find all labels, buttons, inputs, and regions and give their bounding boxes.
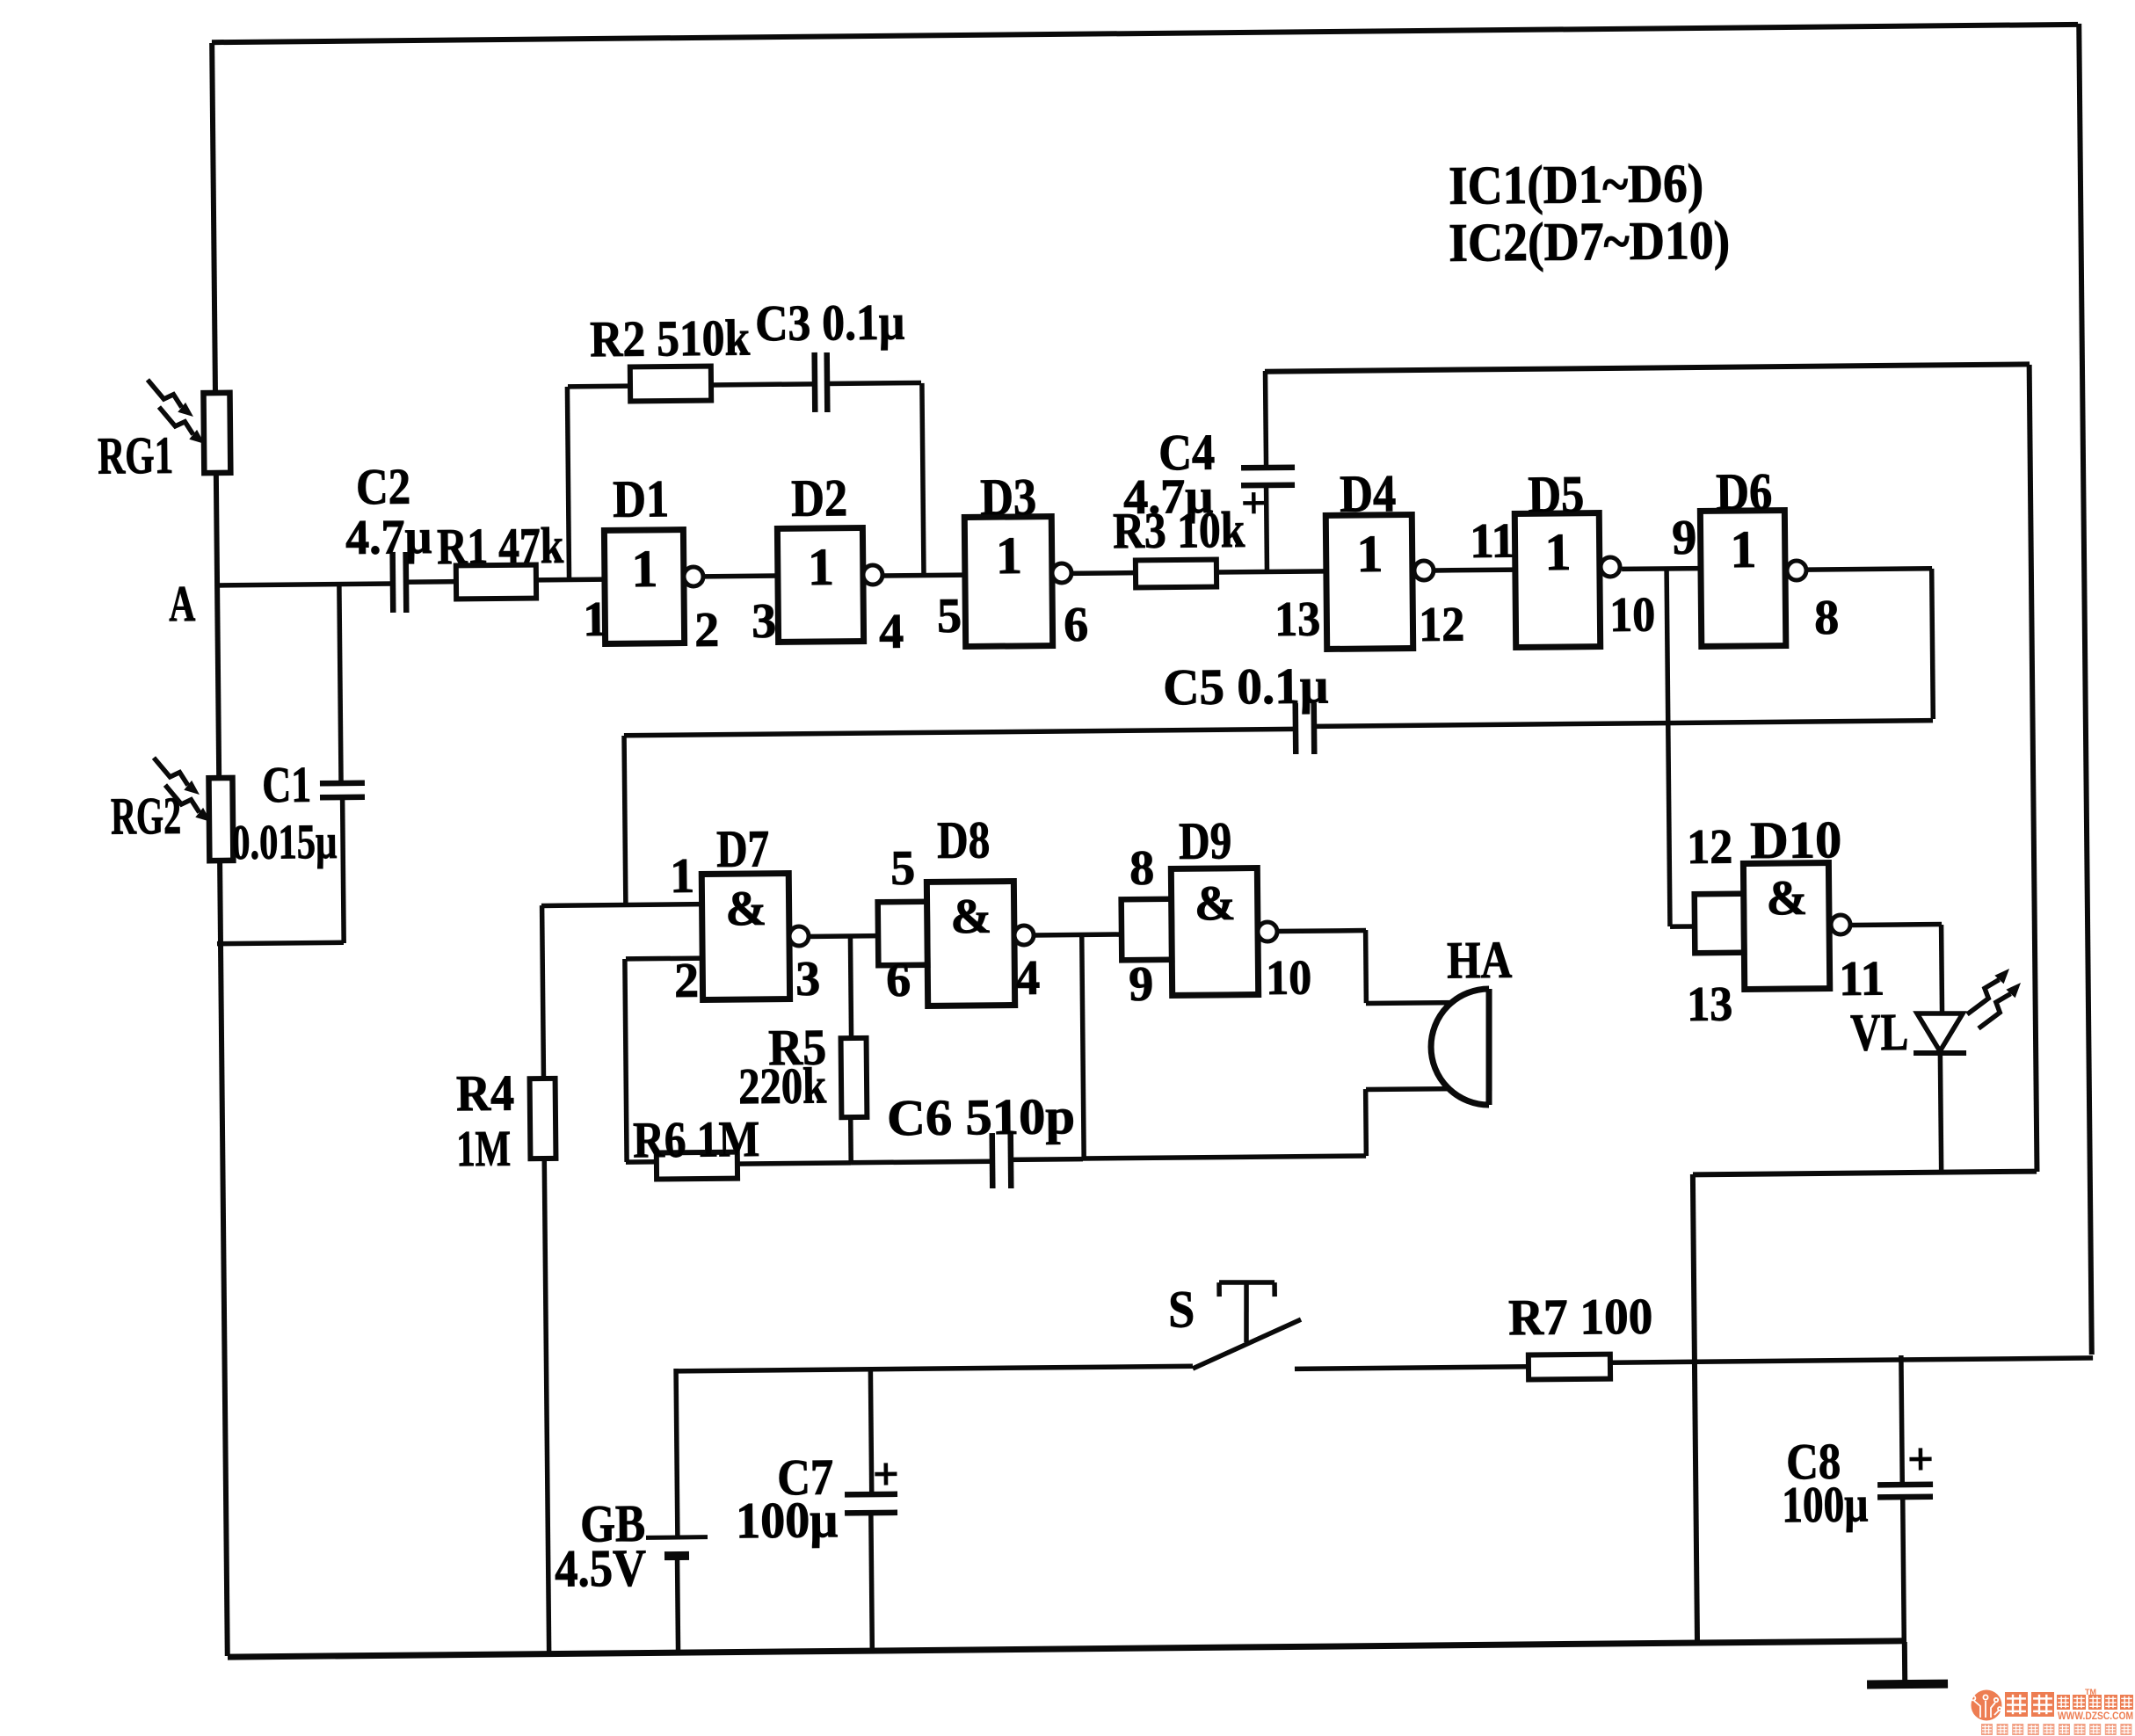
wire C2 to R1 bbox=[405, 579, 456, 585]
svg-text:D10: D10 bbox=[1750, 810, 1842, 869]
svg-text:8: 8 bbox=[1129, 841, 1155, 896]
wire D8 output to D9 pin 8 bbox=[1034, 932, 1122, 937]
svg-text:C3 0.1μ: C3 0.1μ bbox=[755, 294, 905, 352]
svg-text:+: + bbox=[873, 1449, 899, 1500]
wire D6 output down to C5 bbox=[1932, 569, 1934, 719]
svg-text:R4: R4 bbox=[456, 1064, 515, 1122]
inverter gate D3 bbox=[964, 516, 1072, 646]
wire R4 upper lead bbox=[542, 905, 544, 1079]
wire C5 line right bbox=[1314, 721, 1933, 727]
wire R1 to D1 input pin 1 bbox=[536, 577, 605, 582]
wire C5 line left bbox=[624, 729, 1296, 735]
wire C1 return to left border bbox=[217, 942, 344, 943]
svg-text:5: 5 bbox=[937, 589, 962, 643]
wire feedback down to bottom rail bbox=[1693, 1174, 1697, 1645]
svg-text:D8: D8 bbox=[937, 810, 991, 869]
svg-text:C5 0.1μ: C5 0.1μ bbox=[1163, 657, 1329, 715]
svg-text:&: & bbox=[1766, 871, 1807, 926]
wire D3 output to R3 bbox=[1071, 570, 1136, 576]
wire R3 to D4 pin 13 bbox=[1216, 571, 1326, 572]
svg-text:1: 1 bbox=[1356, 525, 1383, 583]
svg-text:C6 510p: C6 510p bbox=[887, 1087, 1076, 1146]
resistor R3 10k bbox=[1136, 560, 1216, 588]
svg-text:10: 10 bbox=[1266, 951, 1312, 1006]
wire R7 to right border bbox=[1610, 1358, 2093, 1362]
wire D5 output to D6 pin 9 bbox=[1622, 566, 1701, 571]
wire C6 right lead bbox=[1011, 1157, 1083, 1162]
svg-text:10: 10 bbox=[1609, 587, 1656, 642]
capacitor C2 4.7u bbox=[393, 552, 407, 613]
photoresistor RG1 bbox=[148, 379, 230, 474]
inverter gate D6 bbox=[1700, 510, 1806, 646]
svg-text:13: 13 bbox=[1274, 592, 1321, 647]
capacitor C3 0.1u bbox=[815, 352, 828, 412]
svg-text:RG2: RG2 bbox=[111, 787, 182, 846]
photoresistor RG2 bbox=[154, 757, 233, 861]
watermark slogan row bbox=[1981, 1724, 2131, 1735]
resistor R7 100 bbox=[1529, 1355, 1610, 1380]
wire node A to C2 bbox=[217, 584, 393, 585]
resistor R6 1M bbox=[657, 1152, 737, 1180]
wire C1 lower lead bbox=[343, 799, 345, 943]
capacitor C1 0.015u bbox=[320, 783, 365, 797]
wire into D10 pin 12 bbox=[1670, 924, 1695, 929]
svg-text:0.015μ: 0.015μ bbox=[231, 815, 338, 870]
svg-text:1: 1 bbox=[631, 540, 658, 598]
svg-text:11: 11 bbox=[1839, 951, 1885, 1006]
svg-text:4: 4 bbox=[1015, 951, 1041, 1006]
svg-text:VL: VL bbox=[1850, 1003, 1909, 1062]
wire ground stem bbox=[1902, 1642, 1907, 1682]
wire D7 pin 1 bbox=[541, 904, 702, 906]
capacitor C8 100u electrolytic bbox=[1877, 1485, 1933, 1498]
wire D6 output pin 8 bbox=[1807, 569, 1932, 570]
svg-text:4.7μ: 4.7μ bbox=[345, 510, 432, 565]
svg-text:WWW.DZSC.COM: WWW.DZSC.COM bbox=[2058, 1710, 2133, 1722]
svg-text:C2: C2 bbox=[356, 458, 411, 516]
svg-text:11: 11 bbox=[1470, 513, 1516, 568]
wire R6 to R5 junction bbox=[737, 1163, 851, 1164]
wire C1 upper lead bbox=[339, 584, 341, 783]
svg-text:2: 2 bbox=[674, 954, 700, 1008]
watermark brand text bbox=[2005, 1692, 2054, 1717]
svg-text:IC1(D1~D6): IC1(D1~D6) bbox=[1449, 154, 1704, 216]
wire D7 pin 2 bbox=[626, 955, 702, 961]
svg-text:9: 9 bbox=[1672, 511, 1697, 565]
NAND gate D10 bbox=[1694, 862, 1850, 990]
wire C3 feedback down to D2 output bbox=[922, 383, 924, 575]
switch S pushbutton bbox=[1192, 1282, 1302, 1369]
wire R4 lower lead bbox=[544, 1159, 548, 1653]
svg-text:13: 13 bbox=[1687, 977, 1733, 1032]
svg-text:+: + bbox=[1241, 478, 1267, 527]
wire switch S to R7 bbox=[1295, 1367, 1529, 1369]
capacitor C4 4.7u electrolytic bbox=[1241, 468, 1295, 486]
wire R5 junction to C6 bbox=[851, 1161, 992, 1163]
svg-text:C1: C1 bbox=[262, 756, 312, 814]
capacitor C7 100u electrolytic bbox=[845, 1494, 897, 1514]
svg-text:1: 1 bbox=[1544, 523, 1572, 581]
svg-text:S: S bbox=[1168, 1280, 1195, 1338]
wire D9 output pin 10 bbox=[1275, 928, 1366, 933]
wire D10 output pin 11 bbox=[1850, 922, 1942, 927]
wire C4 lower lead bbox=[1264, 485, 1269, 572]
svg-text:1: 1 bbox=[808, 538, 835, 596]
svg-text:8: 8 bbox=[1814, 591, 1840, 645]
wire left border bbox=[212, 43, 228, 1656]
wire pin 2 down to R6 bbox=[625, 959, 627, 1162]
NAND gate D9 bbox=[1121, 868, 1277, 996]
wire HA lower step bbox=[1363, 1089, 1369, 1156]
LED VL bbox=[1913, 969, 2022, 1054]
wire R5 upper lead bbox=[850, 935, 851, 1038]
wire feedback to R2 bbox=[568, 383, 630, 389]
wire C3 to corner bbox=[827, 382, 921, 383]
wire C8 upper lead bbox=[1901, 1355, 1902, 1485]
wire C5 down to D7 pin 1 bbox=[624, 736, 626, 904]
wire C4 upper lead bbox=[1265, 371, 1266, 468]
capacitor C5 0.1u bbox=[1296, 703, 1315, 754]
svg-text:1M: 1M bbox=[456, 1120, 512, 1178]
svg-text:D1: D1 bbox=[613, 469, 670, 528]
ground symbol bbox=[1867, 1680, 1948, 1689]
svg-text:4.5V: 4.5V bbox=[555, 1539, 647, 1598]
svg-text:2: 2 bbox=[694, 603, 720, 657]
svg-text:1: 1 bbox=[996, 527, 1023, 585]
battery GB 4.5V bbox=[646, 1537, 708, 1557]
svg-text:A: A bbox=[169, 575, 196, 632]
wire HA lower terminal bbox=[1366, 1086, 1451, 1092]
svg-text:&: & bbox=[950, 890, 991, 944]
wire battery positive rail bbox=[677, 1366, 1193, 1371]
inverter gate D2 bbox=[777, 527, 882, 642]
svg-text:R3 10k: R3 10k bbox=[1113, 501, 1245, 559]
svg-text:IC2(D7~D10): IC2(D7~D10) bbox=[1449, 211, 1731, 273]
svg-text:D7: D7 bbox=[716, 819, 770, 878]
wire junction down to D10 bbox=[1667, 570, 1670, 926]
svg-text:D3: D3 bbox=[980, 468, 1037, 527]
svg-text:R7 100: R7 100 bbox=[1508, 1288, 1653, 1347]
wire feedback right vertical bbox=[2030, 365, 2037, 1172]
wire HA upper step down bbox=[1363, 930, 1369, 1003]
wire HA upper terminal bbox=[1366, 1000, 1451, 1006]
wire D2 output to D3 pin 5 bbox=[882, 572, 965, 577]
svg-text:R2 510k: R2 510k bbox=[590, 309, 751, 368]
inverter gate D1 bbox=[604, 529, 703, 643]
svg-text:D4: D4 bbox=[1340, 464, 1397, 523]
svg-text:6: 6 bbox=[1064, 598, 1089, 652]
speaker HA bbox=[1430, 989, 1490, 1106]
svg-text:RG1: RG1 bbox=[98, 426, 174, 485]
resistor R5 220k bbox=[841, 1038, 868, 1117]
svg-text:4: 4 bbox=[879, 605, 904, 659]
svg-text:100μ: 100μ bbox=[1782, 1475, 1869, 1533]
svg-text:HA: HA bbox=[1447, 931, 1513, 990]
svg-text:&: & bbox=[725, 882, 766, 936]
wire GB lower lead bbox=[678, 1558, 679, 1652]
svg-text:1: 1 bbox=[1730, 520, 1757, 578]
svg-text:9: 9 bbox=[1129, 957, 1154, 1012]
svg-text:1: 1 bbox=[583, 592, 608, 647]
resistor R2 510k bbox=[630, 367, 711, 402]
svg-text:D6: D6 bbox=[1716, 462, 1773, 521]
wire right border bbox=[2079, 24, 2092, 1355]
resistor R4 1M bbox=[530, 1079, 556, 1159]
NAND gate D7 bbox=[701, 873, 809, 999]
wire C7 upper lead bbox=[870, 1369, 871, 1494]
svg-text:6: 6 bbox=[886, 953, 911, 1007]
wire feedback lower horizontal bbox=[1693, 1172, 2037, 1175]
watermark site name bbox=[2057, 1695, 2133, 1710]
wire D4 output to D5 pin 11 bbox=[1435, 567, 1517, 572]
svg-text:100μ: 100μ bbox=[736, 1491, 839, 1549]
watermark logo circle bbox=[1972, 1690, 2002, 1721]
inverter gate D4 bbox=[1325, 514, 1434, 649]
wire C7 lower lead bbox=[871, 1513, 872, 1650]
wire junction up to R2 feedback bbox=[567, 387, 569, 579]
wire R5 lower lead bbox=[848, 1117, 853, 1163]
wire bottom supply rail bbox=[228, 1641, 1904, 1657]
NAND gate D8 bbox=[877, 881, 1034, 1006]
resistor R1 47k bbox=[456, 565, 536, 599]
svg-text:1: 1 bbox=[670, 849, 695, 904]
svg-text:D2: D2 bbox=[791, 469, 848, 527]
wire D7 output to D8 pin 5 bbox=[807, 933, 878, 939]
wire to LED VL anode bbox=[1939, 925, 1944, 1013]
svg-text:12: 12 bbox=[1687, 820, 1733, 875]
wire R6 left lead bbox=[626, 1159, 657, 1165]
wire LED cathode down bbox=[1940, 1056, 1941, 1172]
wire C4 feedback top run bbox=[1265, 364, 2030, 371]
wire top border bbox=[212, 25, 2078, 42]
svg-text:3: 3 bbox=[752, 594, 777, 649]
inverter gate D5 bbox=[1514, 512, 1621, 647]
wire D8 output down to C6 line bbox=[1082, 934, 1084, 1159]
svg-text:+: + bbox=[1907, 1435, 1934, 1485]
svg-text:5: 5 bbox=[890, 841, 916, 896]
svg-text:12: 12 bbox=[1419, 597, 1465, 651]
wire D1 output to D2 pin 3 bbox=[703, 573, 778, 578]
svg-text:R1 47k: R1 47k bbox=[437, 517, 564, 575]
wire GB upper lead bbox=[676, 1369, 678, 1537]
svg-text:D9: D9 bbox=[1179, 811, 1232, 870]
capacitor C6 510p bbox=[992, 1133, 1012, 1188]
svg-text:D5: D5 bbox=[1528, 465, 1585, 524]
svg-text:&: & bbox=[1195, 876, 1236, 931]
svg-text:220k: 220k bbox=[738, 1057, 827, 1115]
wire R2 to C3 bbox=[711, 384, 815, 385]
wire C6 line to HA branch bbox=[1083, 1156, 1366, 1159]
svg-text:R6 1M: R6 1M bbox=[633, 1110, 760, 1168]
wire C8 lower lead bbox=[1903, 1497, 1905, 1642]
svg-text:3: 3 bbox=[795, 952, 821, 1006]
